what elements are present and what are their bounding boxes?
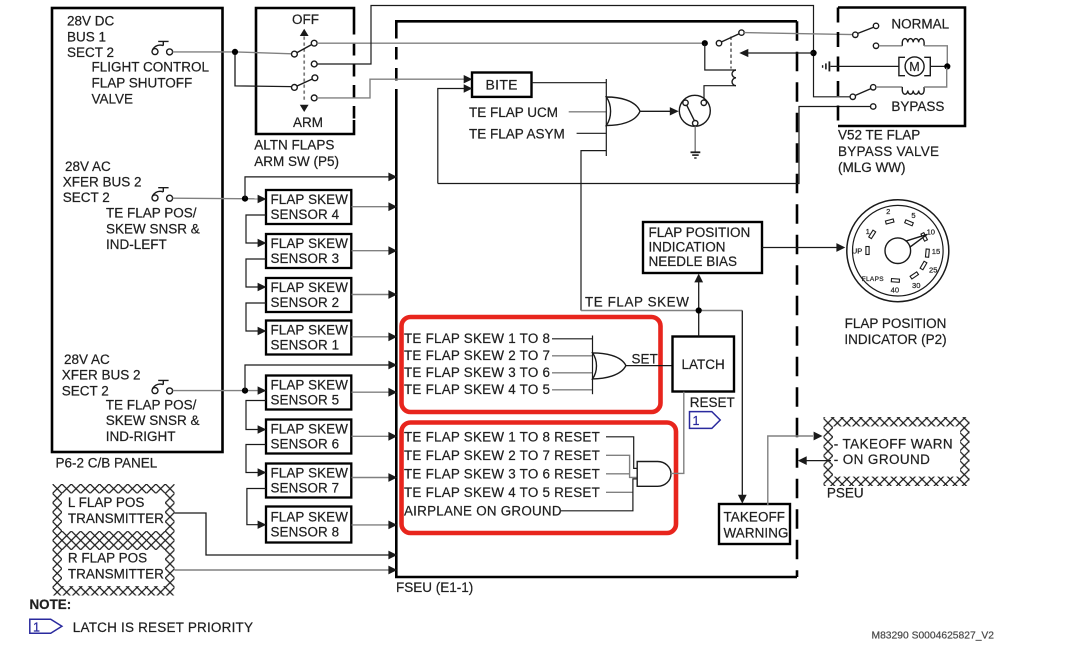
wire 28V AC left feed into FSEU — [245, 173, 397, 199]
switch V52 BYPASS — [850, 85, 876, 110]
wire TE FLAP SKEW to takeoff warning — [738, 311, 747, 504]
wire CB1 to ALTN switch — [173, 52, 292, 87]
svg-text:R FLAP POS: R FLAP POS — [68, 551, 147, 566]
wire ALTN upper throw1 to relay (28V DC) — [317, 42, 705, 44]
wire sensor 3 output to FSEU — [352, 246, 398, 255]
arrow into sensor 7 — [258, 468, 267, 476]
gauge tick 15 — [925, 247, 940, 257]
node junction sensor group 1 feed — [242, 196, 248, 202]
svg-text:FLAPS: FLAPS — [862, 276, 884, 283]
FLAP SKEW SENSOR 1 box — [266, 321, 351, 355]
label TE FLAP SKEW 2 TO 7 RESET — [404, 448, 600, 463]
wire sensor 7 to sensor 8 chain — [247, 489, 266, 525]
wire ALTN upper throw2 over FSEU to bypass riser — [317, 6, 850, 97]
svg-text:AIRPLANE ON GROUND: AIRPLANE ON GROUND — [404, 503, 562, 518]
OR gate U2 set body — [593, 353, 626, 379]
label NORMAL — [891, 16, 949, 31]
label TE FLAP POS/ SKEW SNSR & IND-LEFT — [106, 206, 200, 252]
svg-text:1: 1 — [33, 620, 40, 634]
wire needle bias to indicator — [762, 243, 845, 252]
label SET — [632, 351, 658, 366]
solenoid coil NORMAL — [902, 39, 924, 46]
svg-text:30: 30 — [912, 281, 920, 290]
node junction sensor group 2 feed — [242, 388, 248, 394]
svg-text:SENSOR 5: SENSOR 5 — [271, 393, 340, 408]
node junction motor feed — [944, 63, 950, 69]
wire TE FLAP SKEW latch output up to OR gate — [581, 151, 606, 311]
wire arrow from riser to relay coil (points left) — [739, 49, 813, 57]
wire R transmitter to FSEU — [175, 566, 398, 575]
svg-text:FLAP SKEW: FLAP SKEW — [271, 280, 349, 295]
circuit breaker CB3 TE FLAP POS/SKEW SNSR IND-RIGHT — [152, 380, 173, 394]
BITE box — [472, 73, 532, 97]
note flag 1 bottom — [30, 619, 62, 634]
wire sensor 4 to sensor 3 chain — [246, 215, 266, 243]
svg-text:TE FLAP SKEW: TE FLAP SKEW — [585, 295, 689, 310]
wire L transmitter to FSEU — [175, 513, 398, 559]
svg-text:BITE: BITE — [486, 77, 518, 93]
svg-text:FLAP POSITION: FLAP POSITION — [649, 225, 751, 240]
wire TE FLAP ASYM to OR gate — [577, 132, 607, 134]
FSEU (E1-1) box: solid top/left/bottom, dashed right — [396, 21, 797, 577]
gauge label FLAPS — [862, 276, 884, 283]
svg-text:NOTE:: NOTE: — [30, 597, 72, 612]
switch ALTN upper pole — [292, 40, 318, 67]
svg-text:ARM SW (P5): ARM SW (P5) — [254, 154, 339, 169]
wire sensor 6 to sensor 7 chain — [246, 445, 266, 473]
svg-text:2: 2 — [886, 207, 890, 216]
wire TE FLAP UCM to OR gate — [569, 111, 607, 113]
wire ALTN lower throw2 to BITE input 1 — [317, 79, 464, 98]
svg-text:TE FLAP POS/: TE FLAP POS/ — [106, 398, 197, 413]
arrow into sensor 2 — [258, 283, 267, 291]
BITE input arrow 2 — [464, 84, 473, 92]
red highlight box skew set signals — [402, 317, 661, 412]
FLAP SKEW SENSOR 4 box — [266, 190, 351, 224]
svg-text:L FLAP POS: L FLAP POS — [68, 495, 145, 510]
svg-text:FLAP SKEW: FLAP SKEW — [271, 377, 349, 392]
svg-text:1: 1 — [866, 227, 870, 236]
wire bypass valve position feedback — [438, 107, 871, 184]
svg-text:TE FLAP SKEW 3 TO 6: TE FLAP SKEW 3 TO 6 — [404, 365, 550, 380]
label TE FLAP UCM — [469, 105, 558, 120]
FLAP SKEW SENSOR 7 box — [266, 464, 351, 498]
svg-text:FLAP SKEW: FLAP SKEW — [271, 509, 349, 524]
label LATCH IS RESET PRIORITY — [73, 620, 253, 635]
arrow into sensor 6 — [258, 425, 267, 433]
wire motor to junction node — [930, 65, 947, 67]
svg-text:M83290 S0004625827_V2: M83290 S0004625827_V2 — [872, 631, 995, 642]
wire latch output TE FLAP SKEW — [581, 310, 742, 312]
label TE FLAP POS/ SKEW SNSR & IND-RIGHT — [106, 398, 200, 444]
TAKEOFF WARNING box — [719, 504, 790, 544]
wire NORMAL coil to motor node — [924, 46, 947, 65]
wire reset 2 to 7 into AND — [606, 455, 637, 477]
svg-text:10: 10 — [927, 227, 935, 236]
label NOTE: — [30, 597, 72, 612]
svg-text:TE FLAP UCM: TE FLAP UCM — [469, 105, 558, 120]
wire sensor 2 to sensor 1 chain — [246, 303, 266, 331]
svg-text:SKEW SNSR &: SKEW SNSR & — [106, 413, 200, 428]
svg-text:FLAP SKEW: FLAP SKEW — [271, 465, 349, 480]
label FLAP POSITION INDICATOR (P2) — [844, 316, 946, 347]
P6-2 C/B PANEL box — [52, 8, 223, 452]
svg-text:40: 40 — [891, 286, 899, 295]
svg-text:SENSOR 7: SENSOR 7 — [271, 481, 340, 496]
wire latch top to needle bias arrow — [694, 274, 703, 337]
wire sensor 6 output to FSEU — [352, 432, 398, 441]
label document number — [872, 631, 995, 642]
svg-text:P6-2 C/B PANEL: P6-2 C/B PANEL — [56, 456, 158, 471]
wire CB3 to sensor chain — [173, 390, 258, 392]
wire NORMAL contact to solenoid coil — [879, 45, 903, 47]
wire reset 4 to 5 into AND — [606, 491, 633, 493]
svg-text:UP: UP — [852, 246, 863, 255]
label TE FLAP SKEW 4 TO 5 RESET — [404, 485, 600, 500]
wire airplane on ground into AND — [561, 479, 637, 511]
ground at motor left — [823, 61, 830, 71]
wire BYPASS coil to motor node — [924, 68, 947, 87]
label 28V AC XFER BUS 2 SECT 2 (left) — [63, 159, 142, 205]
relay switch contact — [716, 30, 744, 46]
svg-text:TE FLAP SKEW 3 TO 6 RESET: TE FLAP SKEW 3 TO 6 RESET — [404, 466, 600, 481]
svg-text:5: 5 — [911, 211, 915, 220]
wire relay contact to V52 NORMAL switch — [744, 33, 853, 35]
FLAP SKEW SENSOR 5 box — [266, 376, 351, 410]
rotary interrupter symbol — [679, 95, 710, 126]
switch ALTN lower pole — [292, 75, 318, 101]
svg-text:SKEW SNSR &: SKEW SNSR & — [106, 221, 200, 236]
svg-text:SENSOR 8: SENSOR 8 — [271, 525, 340, 540]
OR gate U1 body — [606, 97, 640, 126]
label TE FLAP SKEW 1 TO 8 — [404, 331, 550, 346]
OR gate U1 (BITE or) input stem — [605, 79, 607, 156]
svg-text:TE FLAP SKEW 4 TO 5 RESET: TE FLAP SKEW 4 TO 5 RESET — [404, 485, 600, 500]
svg-text:RESET: RESET — [690, 395, 735, 410]
svg-text:V52 TE FLAP: V52 TE FLAP — [838, 128, 920, 143]
gauge tick 1 — [866, 227, 876, 238]
svg-text:TE FLAP SKEW 2 TO 7: TE FLAP SKEW 2 TO 7 — [404, 348, 550, 363]
label AIRPLANE ON GROUND — [404, 503, 562, 518]
wire BYPASS arm to solenoid coil — [876, 86, 902, 88]
svg-text:BUS 1: BUS 1 — [67, 29, 106, 44]
arrow into sensor 8 — [258, 521, 267, 529]
relay coil L1 — [732, 70, 736, 86]
svg-text:SET: SET — [632, 351, 658, 366]
ground below rotary symbol — [691, 126, 701, 158]
label PSEU — [827, 486, 864, 501]
wire sensor 5 output to FSEU — [352, 388, 398, 397]
svg-text:VALVE: VALVE — [92, 92, 134, 107]
wire sensor 3 to sensor 2 chain — [246, 259, 266, 287]
wire CB2 to sensor chain — [173, 197, 258, 200]
svg-text:TE FLAP ASYM: TE FLAP ASYM — [469, 126, 565, 141]
circuit breaker CB1 FLIGHT CONTROL FLAP SHUTOFF VALVE — [152, 41, 173, 55]
BITE input arrow 1 — [464, 75, 473, 83]
svg-text:LATCH IS RESET PRIORITY: LATCH IS RESET PRIORITY — [73, 620, 253, 635]
label 28V DC BUS 1 SECT 2 — [67, 14, 115, 60]
svg-text:28V AC: 28V AC — [65, 159, 111, 174]
wire SET to latch — [626, 365, 672, 367]
AND gate U3 reset body — [637, 462, 671, 487]
L FLAP POS TRANSMITTER box crosshatch border — [53, 484, 175, 541]
svg-text:FLAP SHUTOFF: FLAP SHUTOFF — [92, 76, 193, 91]
gauge tick 25 — [920, 261, 937, 274]
svg-text:TRANSMITTER: TRANSMITTER — [68, 567, 164, 582]
svg-text:FLIGHT CONTROL: FLIGHT CONTROL — [92, 59, 210, 74]
svg-text:TRANSMITTER: TRANSMITTER — [68, 511, 164, 526]
FLAP SKEW SENSOR 6 box — [266, 420, 351, 454]
svg-text:(MLG WW): (MLG WW) — [838, 160, 905, 175]
svg-text:XFER BUS 2: XFER BUS 2 — [62, 368, 141, 383]
node junction relay coil feed — [702, 40, 708, 46]
node junction on CB1 wire — [232, 49, 238, 55]
svg-text:FLAP SKEW: FLAP SKEW — [271, 236, 349, 251]
V52 TE FLAP BYPASS VALVE box: dashed left edge — [838, 8, 965, 127]
label ARM — [293, 115, 323, 130]
note flag 1 at latch reset — [690, 412, 721, 429]
label TE FLAP SKEW 1 TO 8 RESET — [404, 429, 600, 444]
label - TAKEOFF WARN / - ON GROUND — [834, 437, 953, 467]
svg-text:TE FLAP SKEW 1 TO 8 RESET: TE FLAP SKEW 1 TO 8 RESET — [404, 429, 600, 444]
wire 28V AC right feed into FSEU — [245, 361, 397, 391]
svg-text:FLAP POSITION: FLAP POSITION — [845, 316, 947, 331]
label TE FLAP SKEW 2 TO 7 — [404, 348, 550, 363]
gauge tick 5 — [905, 211, 916, 226]
wire sensor 7 output to FSEU — [352, 473, 398, 482]
gauge tick 2 — [885, 207, 894, 224]
svg-text:PSEU: PSEU — [827, 486, 864, 501]
wire junction to relay coil — [705, 43, 736, 70]
label TE FLAP SKEW 4 TO 5 — [404, 382, 550, 397]
label TE FLAP SKEW net — [585, 295, 689, 310]
R FLAP POS TRANSMITTER box crosshatch border — [53, 541, 175, 596]
wire sensor 5 to sensor 6 chain — [246, 401, 266, 430]
wire PSEU on ground into FSEU — [798, 456, 831, 465]
svg-text:FSEU (E1-1): FSEU (E1-1) — [396, 580, 473, 595]
svg-text:IND-RIGHT: IND-RIGHT — [106, 429, 176, 444]
wire skew 2 to 7 into OR — [552, 355, 593, 357]
FLAP POSITION INDICATOR gauge dial — [847, 200, 949, 302]
svg-text:28V DC: 28V DC — [67, 14, 115, 29]
svg-text:TAKEOFF: TAKEOFF — [724, 510, 786, 525]
svg-text:TE FLAP SKEW 2 TO 7 RESET: TE FLAP SKEW 2 TO 7 RESET — [404, 448, 600, 463]
wire sensor 8 output to FSEU — [352, 521, 398, 530]
wire AND output to latch reset — [671, 392, 684, 474]
FLAP POSITION INDICATION NEEDLE BIAS box — [643, 222, 762, 273]
label V52 TE FLAP BYPASS VALVE (MLG WW) — [838, 128, 939, 175]
wire BITE output to OR gate — [532, 82, 607, 84]
svg-text:M: M — [909, 60, 919, 74]
FLAP SKEW SENSOR 8 box — [266, 507, 351, 543]
label FSEU (E1-1) — [396, 580, 473, 595]
label FLIGHT CONTROL FLAP SHUTOFF VALVE — [92, 59, 210, 106]
gauge tick 10 — [921, 227, 935, 241]
wire OR gate output to rotary switch — [640, 107, 679, 115]
svg-text:WARNING: WARNING — [724, 526, 789, 541]
wire reset 3 to 6 into AND — [606, 473, 630, 475]
arrow into sensor 1 — [258, 327, 267, 335]
svg-text:FLAP SKEW: FLAP SKEW — [271, 322, 349, 337]
svg-text:INDICATION: INDICATION — [649, 239, 726, 254]
svg-text:OFF: OFF — [292, 12, 319, 27]
svg-text:SENSOR 1: SENSOR 1 — [271, 338, 340, 353]
svg-text:ALTN FLAPS: ALTN FLAPS — [254, 138, 334, 153]
switch V52 NORMAL — [853, 23, 879, 48]
wire skew 1 to 8 into OR — [552, 338, 593, 340]
wire reset 1 to 8 into AND — [606, 437, 637, 469]
red highlight box skew reset signals — [402, 423, 677, 534]
arrow into sensor 3 — [258, 239, 267, 247]
svg-text:TE FLAP POS/: TE FLAP POS/ — [106, 206, 197, 221]
wire skew 4 to 5 into OR — [552, 389, 593, 391]
label 28V AC XFER BUS 2 SECT 2 (lower) — [62, 352, 141, 398]
svg-text:28V AC: 28V AC — [64, 352, 110, 367]
dashed mechanical link relay — [730, 37, 732, 69]
circuit breaker CB2 TE FLAP POS/SKEW SNSR IND-LEFT — [152, 188, 173, 202]
svg-text:15: 15 — [932, 247, 940, 256]
svg-text:ARM: ARM — [293, 115, 323, 130]
svg-text:SENSOR 6: SENSOR 6 — [271, 437, 340, 452]
wire sensor 2 output to FSEU — [352, 290, 398, 299]
gauge tick 40 — [891, 279, 900, 295]
svg-text:25: 25 — [929, 266, 937, 275]
svg-text:TE FLAP SKEW 1 TO 8: TE FLAP SKEW 1 TO 8 — [404, 331, 550, 346]
svg-text:NORMAL: NORMAL — [891, 16, 949, 31]
label BYPASS — [891, 99, 944, 114]
arrow into sensor 5 — [258, 386, 267, 394]
wire takeoff warning to PSEU — [768, 432, 823, 506]
label RESET — [690, 395, 735, 410]
switch travel dashed arrow OFF-ARM — [300, 29, 309, 112]
motor M — [899, 57, 930, 76]
solenoid coil BYPASS — [902, 87, 924, 94]
label ALTN FLAPS ARM SW (P5) — [254, 138, 339, 169]
wire sensor 1 output to FSEU — [352, 332, 398, 341]
svg-text:IND-LEFT: IND-LEFT — [106, 237, 167, 252]
label TE FLAP SKEW 3 TO 6 — [404, 365, 550, 380]
LATCH box — [673, 337, 735, 392]
wire BITE input 2 from bypass feedback — [438, 89, 464, 184]
svg-text:SENSOR 3: SENSOR 3 — [271, 251, 340, 266]
FLAP SKEW SENSOR 2 box — [266, 278, 351, 312]
FLAP SKEW SENSOR 3 box — [266, 234, 351, 268]
gauge tick 30 — [910, 272, 920, 290]
svg-text:1: 1 — [693, 414, 700, 428]
svg-text:- ON GROUND: - ON GROUND — [834, 452, 931, 467]
svg-text:FLAP SKEW: FLAP SKEW — [271, 192, 349, 207]
svg-text:SECT 2: SECT 2 — [67, 45, 114, 60]
svg-text:BYPASS VALVE: BYPASS VALVE — [838, 144, 939, 159]
label TE FLAP SKEW 3 TO 6 RESET — [404, 466, 600, 481]
svg-text:BYPASS: BYPASS — [891, 99, 944, 114]
svg-text:SECT 2: SECT 2 — [62, 383, 109, 398]
label OFF — [292, 12, 319, 27]
wire ground to motor — [831, 65, 899, 67]
svg-text:SENSOR 4: SENSOR 4 — [271, 207, 340, 222]
svg-text:SECT 2: SECT 2 — [63, 190, 110, 205]
svg-text:SENSOR 2: SENSOR 2 — [271, 295, 340, 310]
svg-text:INDICATOR (P2): INDICATOR (P2) — [844, 332, 946, 347]
label P6-2 C/B PANEL — [56, 456, 158, 471]
svg-text:FLAP SKEW: FLAP SKEW — [271, 421, 349, 436]
svg-text:XFER BUS 2: XFER BUS 2 — [63, 175, 142, 190]
ALTN FLAPS ARM SW (P5) box — [256, 8, 354, 134]
svg-text:TE FLAP SKEW 4 TO 5: TE FLAP SKEW 4 TO 5 — [404, 382, 550, 397]
label TE FLAP ASYM — [469, 126, 565, 141]
wire skew 3 to 6 into OR — [552, 372, 593, 374]
svg-text:NEEDLE BIAS: NEEDLE BIAS — [649, 254, 738, 269]
arrow into sensor 4 — [258, 195, 267, 203]
node junction on riser at relay arrow — [810, 50, 816, 56]
gauge hub — [885, 238, 911, 264]
PSEU box crosshatch border — [824, 417, 970, 486]
svg-text:LATCH: LATCH — [682, 357, 725, 372]
wire sensor 4 output to FSEU — [352, 202, 398, 211]
svg-text:- TAKEOFF WARN: - TAKEOFF WARN — [834, 437, 953, 452]
OR gate set input stem — [592, 336, 594, 395]
node junction TE FLAP SKEW — [696, 307, 702, 313]
gauge tick UP — [852, 246, 869, 255]
gauge needle — [894, 234, 927, 255]
wire relay coil to rotary terminal — [704, 86, 736, 100]
